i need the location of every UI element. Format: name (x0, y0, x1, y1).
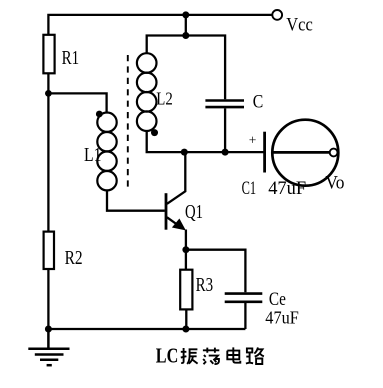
transformer core dashed line (127, 55, 129, 190)
wire collector from mid rail (167, 152, 185, 204)
terminal Vcc circle (272, 10, 282, 20)
transistor Q1 emitter (167, 217, 182, 228)
svg-text:C: C (253, 92, 263, 112)
wire branch to L1 top (48, 93, 106, 112)
svg-text:R3: R3 (196, 275, 214, 296)
resistor R3 (180, 270, 192, 310)
svg-text:Vo: Vo (325, 172, 344, 193)
wire R3 bottom (185, 309, 187, 329)
wire L2 bottom to mid rail (147, 131, 265, 152)
node junction at rail2 (182, 32, 189, 39)
caption hanzi lu (246, 347, 264, 364)
svg-text:C1: C1 (242, 179, 257, 199)
caption hanzi dang (203, 348, 219, 365)
transistor Q1 base bar (165, 193, 168, 230)
svg-text:R1: R1 (62, 48, 80, 69)
svg-text:L1: L1 (84, 145, 102, 166)
inductor L2 coil (137, 53, 157, 131)
svg-text:L2: L2 (156, 88, 173, 108)
inductor L1 phase dot (96, 111, 103, 118)
node junction mid rail at C (222, 149, 229, 156)
terminal Vo circle (330, 149, 338, 157)
node junction emitter (182, 246, 189, 253)
wire rail2 horizontal (147, 36, 225, 100)
svg-text:Vcc: Vcc (286, 15, 313, 36)
wire rail2 from top rail down (185, 15, 187, 36)
wire emitter node to Ce (186, 250, 246, 293)
resistor R1 (43, 35, 54, 74)
wire R3 top (185, 250, 187, 270)
wire left rail R1 to R2 (47, 73, 49, 231)
wire bottom rail (48, 328, 245, 330)
wire top rail Vcc (48, 15, 272, 35)
node junction bottom left (45, 326, 52, 333)
output transducer circle (272, 120, 338, 186)
node junction mid rail left (181, 149, 188, 156)
capacitor Ce plates (225, 294, 263, 302)
svg-text:+: + (249, 132, 257, 147)
inductor L2 phase dot (151, 129, 158, 136)
svg-text:47uF: 47uF (268, 179, 306, 199)
svg-text:Q1: Q1 (185, 202, 203, 223)
capacitor C1 plate (263, 132, 266, 173)
svg-text:LC: LC (156, 343, 179, 367)
inductor L1 coil (97, 113, 116, 191)
transistor Q1 emitter arrowhead (172, 219, 186, 231)
node junction bottom mid (182, 326, 189, 333)
node junction at top rail (182, 11, 189, 18)
caption hanzi dian (227, 347, 240, 362)
wire through output circle (272, 151, 330, 154)
wire C bottom to mid rail (224, 108, 226, 152)
wire emitter down (185, 230, 187, 250)
ground (28, 329, 69, 365)
svg-text:47uF: 47uF (265, 308, 299, 328)
svg-text:R2: R2 (65, 248, 83, 269)
wire L1 bottom to Q1 base (107, 190, 165, 210)
wire left rail R2 to bottom (47, 269, 49, 329)
capacitor C plates (205, 101, 244, 108)
wire Ce bottom (244, 303, 246, 329)
node junction left at R1 bottom (45, 90, 52, 97)
caption hanzi zhen (181, 348, 198, 364)
resistor R2 (44, 232, 54, 269)
